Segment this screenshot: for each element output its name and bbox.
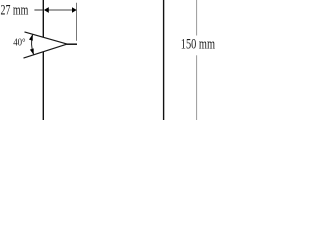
svg-text:27 mm: 27 mm	[1, 2, 29, 18]
angle arc upper arrowhead	[29, 34, 33, 41]
angle arc lower arrowhead	[30, 48, 34, 55]
svg-text:40°: 40°	[13, 38, 25, 49]
27 mm leader line	[34, 9, 43, 11]
extension line for 27 mm dimension	[76, 3, 78, 41]
crack tick at notch apex	[67, 43, 77, 45]
plate left edge (upper segment)	[42, 0, 44, 37]
svg-text:150 mm: 150 mm	[181, 37, 215, 53]
150 mm dimension line (lower segment)	[196, 55, 198, 120]
plate right edge	[163, 0, 165, 120]
40-degree angle arc	[32, 34, 34, 55]
27 mm left arrowhead	[44, 7, 49, 13]
27 mm dimension shaft	[48, 9, 73, 11]
150 mm dimension line (upper segment)	[196, 0, 198, 36]
V-notch lower face (with extension to angle callout)	[24, 44, 68, 58]
27 mm right arrowhead	[72, 7, 77, 12]
plate left edge (lower segment)	[42, 52, 44, 120]
V-notch upper face (with extension to angle callout)	[25, 32, 68, 44]
